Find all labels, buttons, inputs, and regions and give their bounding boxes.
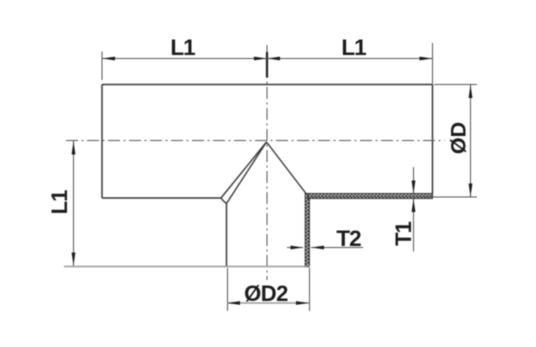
- arrow T2 left: [291, 246, 304, 250]
- arrow L1 top-left right: [254, 57, 267, 61]
- arrow L1 top-right right: [420, 57, 433, 61]
- arrow T2 right: [311, 246, 324, 250]
- dimension T1 bottom segment: [413, 199, 415, 252]
- body outline right edge: [432, 85, 434, 194]
- cone outer-left line: [221, 142, 267, 198]
- horizontal centerline: [66, 140, 445, 142]
- arrow L1 left top: [72, 141, 76, 155]
- svg-text:ØD: ØD: [447, 122, 471, 154]
- dimension L1 left line: [73, 141, 75, 266]
- branch left wall: [226, 204, 228, 268]
- arrow T1 top: [412, 181, 416, 195]
- body outline top edge: [102, 84, 433, 86]
- dimension L1 top-left line: [102, 58, 267, 60]
- dimension OD2 extension right: [309, 268, 311, 311]
- dimension OD extension bottom: [425, 196, 477, 198]
- arrow T1 bottom: [412, 199, 416, 213]
- svg-text:ØD2: ØD2: [244, 281, 288, 306]
- body outline bottom-left edge: [102, 197, 221, 199]
- dimension OD2 extension left: [227, 268, 229, 311]
- hatched wall horizontal band T1: [308, 194, 433, 199]
- arrow OD2 left: [227, 301, 240, 305]
- dimension T1 top segment: [413, 167, 415, 194]
- svg-text:L1: L1: [47, 190, 72, 214]
- arrow L1 left bottom: [72, 253, 76, 267]
- center thick tick: [266, 52, 268, 78]
- svg-text:T2: T2: [336, 226, 361, 251]
- arrow OD2 right: [296, 301, 309, 305]
- svg-text:L1: L1: [170, 35, 195, 60]
- dimension T2 left segment: [287, 247, 303, 249]
- arrow L1 top-right left: [267, 57, 280, 61]
- arrow L1 top-left left: [102, 57, 115, 61]
- dimension L1 top-left extension line: [101, 52, 103, 81]
- svg-text:L1: L1: [341, 35, 366, 60]
- hatched wall vertical band T2: [305, 194, 309, 268]
- cone inner-left line: [227, 142, 267, 204]
- body outline left edge: [101, 85, 103, 199]
- arrow OD top: [469, 85, 473, 99]
- vertical centerline: [266, 45, 268, 280]
- dimension T2 right segment: [311, 247, 363, 249]
- dimension OD2 line: [227, 302, 309, 304]
- bottom extension gray line: [64, 266, 310, 268]
- weld corner: [221, 198, 227, 204]
- dimension OD extension top: [434, 84, 477, 86]
- cone right line: [267, 142, 307, 194]
- svg-text:T1: T1: [391, 221, 416, 245]
- dimension L1 top-right line: [267, 58, 433, 60]
- dimension OD line: [470, 85, 472, 198]
- arrow OD bottom: [469, 184, 473, 198]
- dimension L1 top-right extension line: [432, 43, 434, 84]
